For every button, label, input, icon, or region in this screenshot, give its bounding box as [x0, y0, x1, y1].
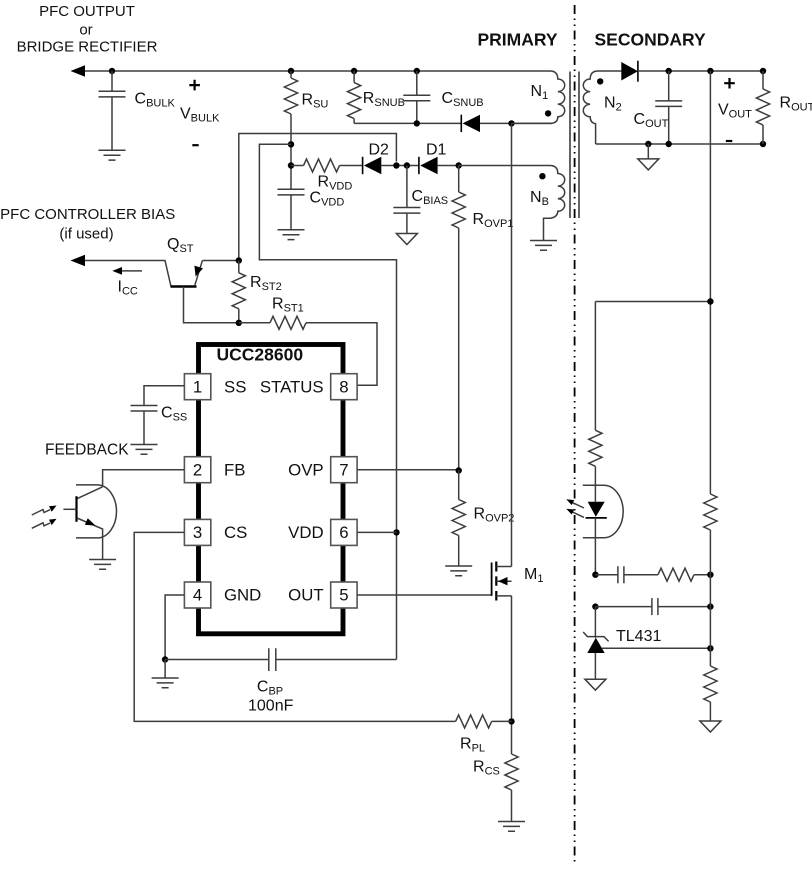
wire: VDD net (RSU node to pin 6 and CBP): [259, 144, 396, 659]
wire: sense to LED branch: [595, 301, 710, 303]
wire: QST base to RST1/RST2 node: [184, 287, 239, 323]
ground (CVDD): [278, 230, 305, 240]
arrow to PFC output: [71, 65, 86, 76]
pin 6 VDD: [331, 519, 357, 545]
node: CSNUB top junction: [414, 68, 420, 74]
ground (optocoupler emitter): [89, 560, 116, 570]
diode (output rectifier): [621, 61, 638, 82]
wire: QST collector: [85, 261, 171, 287]
label: PFC OUTPUT header text: [17, 3, 158, 56]
svg-text:SECONDARY: SECONDARY: [595, 30, 706, 50]
wire: TL431 ref to divider tap: [602, 647, 711, 649]
resistor (LED series): [589, 302, 602, 486]
node: ROUT bottom junction: [760, 141, 766, 147]
svg-text:5: 5: [339, 586, 348, 605]
capacitor COUT: [634, 71, 683, 144]
node: RST2 / RST1 junction: [236, 320, 242, 326]
capacitor CBP: [165, 648, 396, 714]
arrow: optocoupler light input 1: [32, 506, 57, 516]
node: CSNUB bottom junction: [414, 120, 420, 126]
pin 1 SS: [184, 374, 210, 400]
node: RSNUB top junction: [351, 68, 357, 74]
node: CBIAS top junction: [404, 162, 410, 168]
svg-text:7: 7: [339, 460, 348, 479]
pin 8 STATUS: [331, 374, 357, 400]
wire: pin 5 OUT to M1 gate: [357, 594, 492, 596]
node: NB polarity dot: [539, 173, 545, 179]
arrow to PFC controller bias: [71, 255, 86, 266]
wire: N2 to output diode: [598, 70, 621, 72]
resistor RSU: [284, 71, 328, 189]
wire: pin 3 CS to RPL: [134, 532, 455, 721]
optocoupler LED package: [583, 485, 623, 538]
node: VOUT sense junction: [707, 68, 713, 74]
capacitor CVDD: [278, 189, 345, 230]
pin 5 OUT: [331, 582, 357, 608]
node: secondary ground junction: [645, 141, 651, 147]
node: ROUT top junction: [760, 68, 766, 74]
ground (CSS): [131, 445, 158, 455]
svg-text:D1: D1: [426, 142, 447, 159]
svg-text:OUT: OUT: [288, 586, 323, 605]
shunt regulator TL431: [583, 607, 661, 680]
node: RSU top junction: [288, 68, 294, 74]
label: VBULK minus: [192, 144, 198, 146]
transformer winding N1: [512, 71, 565, 123]
svg-text:BRIDGE RECTIFIER: BRIDGE RECTIFIER: [17, 39, 158, 56]
op-amp U1 (UCC28600 controller outline): [199, 345, 344, 634]
arrow: optocoupler light input 2: [32, 519, 57, 529]
svg-text:UCC28600: UCC28600: [217, 345, 304, 365]
node: N2 polarity dot: [597, 78, 603, 84]
ground (divider, open triangle): [700, 721, 721, 732]
resistor ROVP2: [452, 471, 514, 567]
pin 3 CS: [184, 519, 210, 545]
svg-text:FB: FB: [224, 460, 245, 479]
svg-text:SS: SS: [224, 377, 246, 396]
resistor RST1: [239, 296, 306, 330]
transistor M1 (N-MOSFET): [492, 562, 544, 601]
capacitor (comp pole) branch: [595, 598, 710, 615]
node: compensation junction lower: [592, 603, 598, 609]
node: compensation junction upper: [592, 572, 598, 578]
resistor RVDD: [291, 159, 363, 193]
pin 7 OVP: [331, 457, 357, 483]
capacitor CBULK: [99, 71, 176, 150]
resistor RSNUB: [348, 71, 405, 123]
wire: QST emitter to bias node: [239, 134, 397, 261]
svg-text:PFC OUTPUT: PFC OUTPUT: [39, 3, 135, 20]
label: VOUT minus: [726, 140, 733, 142]
resistor ROVP1: [452, 166, 513, 471]
svg-text:8: 8: [339, 377, 348, 396]
arrow: LED light output 1: [566, 499, 584, 508]
capacitor (comp zero) + resistor branch: [595, 566, 710, 583]
optocoupler phototransistor: [63, 485, 116, 560]
ground (COUT, open triangle): [638, 144, 659, 170]
resistor ROUT: [756, 71, 812, 144]
node: RSU bottom / VDD takeoff junction: [288, 141, 294, 147]
svg-text:PFC CONTROLLER BIAS: PFC CONTROLLER BIAS: [0, 206, 175, 223]
node: comp branch upper right junction: [707, 572, 713, 578]
wire: pin 7 OVP to ROVP divider: [357, 469, 459, 471]
svg-text:FEEDBACK: FEEDBACK: [45, 442, 129, 459]
svg-text:TL431: TL431: [616, 628, 661, 645]
label: VBULK plus: [189, 80, 200, 91]
wire: pin 4 GND: [165, 595, 184, 660]
pin 4 GND: [184, 582, 210, 608]
node: sense tap junction: [707, 298, 713, 304]
svg-text:VDD: VDD: [288, 523, 323, 542]
node: N1 polarity dot: [545, 110, 551, 116]
wire: VOUT sense line: [709, 71, 711, 494]
svg-text:1: 1: [193, 377, 202, 396]
ground (CBULK): [99, 150, 126, 160]
node: RVDD / CVDD junction: [288, 162, 294, 168]
node: D2 anode / bias junction: [393, 162, 399, 168]
svg-text:(if used): (if used): [59, 226, 113, 243]
pin 2 FB: [184, 457, 210, 483]
svg-text:100nF: 100nF: [248, 698, 294, 715]
label: VOUT plus: [724, 78, 735, 89]
wire: pin 1 to CSS: [144, 386, 184, 406]
resistor (divider lower): [704, 666, 717, 721]
boundary: isolation dash-dot line: [574, 5, 576, 866]
wire: RST1 to pin 8 STATUS: [306, 323, 377, 386]
wire: pin 6 to VDD rail: [357, 531, 396, 533]
ground (CBIAS, open triangle): [396, 234, 417, 245]
resistor RST2: [232, 261, 282, 323]
node: RPL / RCS / M1 source junction: [508, 718, 514, 724]
capacitor CSNUB: [403, 71, 483, 123]
node: divider tap junction: [707, 645, 713, 651]
ground (RCS): [498, 822, 525, 832]
node: COUT top junction: [666, 68, 672, 74]
node: pin 6 VDD junction: [393, 529, 399, 535]
ground (TL431, open triangle): [585, 679, 606, 690]
wire: VOUT bottom rail: [596, 143, 763, 145]
node: CBULK top junction: [109, 68, 115, 74]
ground (NB): [530, 241, 557, 251]
diode D2: [363, 142, 419, 175]
transistor QST (PNP): [167, 236, 239, 287]
resistor (divider upper): [704, 494, 717, 666]
svg-text:or: or: [79, 22, 92, 39]
svg-text:GND: GND: [224, 586, 261, 605]
node: comp branch lower right junction: [707, 603, 713, 609]
resistor RCS: [473, 754, 518, 822]
node: COUT bottom junction: [666, 141, 672, 147]
diode (optocoupler LED): [586, 485, 607, 575]
ground (pin 4 GND): [152, 660, 179, 688]
transformer core: [570, 72, 579, 219]
svg-text:6: 6: [339, 523, 348, 542]
node: GND / CBP junction: [162, 656, 168, 662]
node: D1 anode / ROVP1 / NB junction: [456, 162, 462, 168]
svg-text:3: 3: [193, 523, 202, 542]
diode D1: [419, 142, 459, 175]
diode (snubber clamp): [461, 115, 480, 132]
arrow: LED light output 2: [566, 509, 584, 518]
wire: snubber bottom: [354, 122, 552, 124]
wire: pin 2 FB to optocoupler: [103, 470, 185, 487]
svg-text:CS: CS: [224, 523, 247, 542]
transformer winding N2: [583, 71, 621, 144]
svg-text:STATUS: STATUS: [260, 377, 324, 396]
arrow: ICC current: [112, 267, 142, 298]
capacitor CSS: [131, 405, 188, 445]
svg-text:OVP: OVP: [288, 460, 323, 479]
resistor RPL: [456, 715, 512, 755]
capacitor CBIAS: [393, 166, 448, 234]
node: QST emitter junction: [236, 257, 242, 263]
transformer winding NB: [459, 166, 565, 241]
ground (ROVP2): [445, 566, 472, 576]
node: ROVP1 / ROVP2 junction: [456, 467, 462, 473]
svg-text:2: 2: [193, 460, 202, 479]
svg-text:D2: D2: [369, 142, 390, 159]
svg-text:4: 4: [193, 586, 202, 605]
svg-text:PRIMARY: PRIMARY: [477, 30, 557, 50]
wire: primary top rail (VBULK): [84, 70, 550, 72]
wire: VOUT top rail: [638, 70, 763, 72]
wire: M1 source to RCS: [511, 596, 513, 754]
node: N1 bottom / M1 drain junction: [508, 120, 514, 126]
label: PFC CONTROLLER BIAS: [0, 206, 175, 243]
wire: M1 drain: [511, 123, 513, 566]
